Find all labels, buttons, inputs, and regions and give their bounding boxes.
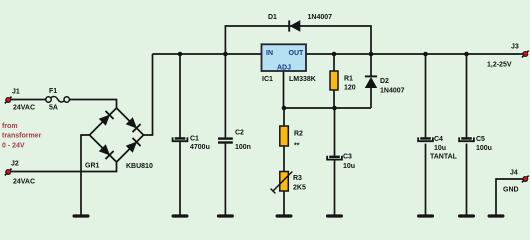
svg-text:KBU810: KBU810 (126, 163, 153, 170)
regulator IC1 LM338K (262, 44, 307, 71)
svg-text:transformer: transformer (2, 133, 42, 140)
svg-text:GR1: GR1 (85, 163, 100, 170)
resistor R2 (280, 126, 289, 146)
connector J1 terminal (5, 97, 12, 104)
svg-text:R1: R1 (344, 76, 353, 83)
svg-text:0 - 24V: 0 - 24V (2, 143, 25, 150)
junction C5/output rail (464, 52, 469, 57)
svg-text:4700u: 4700u (190, 144, 210, 151)
svg-text:TANTAL: TANTAL (430, 154, 458, 161)
wire J2 to bridge AC2 (bottom corner) (11, 162, 117, 172)
capacitor C5 electrolytic symbol (459, 137, 474, 141)
junction C1/input rail (178, 52, 183, 57)
wire C3 branch down (334, 108, 336, 156)
connector J3 terminal (522, 51, 529, 58)
capacitor C1 electrolytic symbol (173, 137, 188, 141)
junction R1/output rail (332, 52, 337, 57)
wire J4 to ground (496, 179, 523, 215)
capacitor C3 electrolytic symbol (327, 156, 342, 160)
wire C2 branch down (224, 54, 226, 137)
diode D1 (289, 20, 300, 31)
wire D2 branch (370, 54, 372, 76)
svg-text:24VAC: 24VAC (13, 179, 35, 186)
bridge diode left-top (98, 111, 113, 126)
bridge diode bottom-right (125, 138, 140, 153)
ground C1 (172, 214, 189, 217)
wire C1 to ground (179, 142, 181, 215)
svg-text:R3: R3 (293, 175, 302, 182)
svg-text:F1: F1 (49, 88, 57, 95)
svg-text:ADJ: ADJ (277, 65, 291, 72)
svg-text:C4: C4 (434, 136, 443, 143)
svg-text:D1: D1 (268, 14, 277, 21)
svg-text:2K5: 2K5 (293, 185, 306, 192)
ground C4 (417, 214, 434, 217)
wire R1 top lead (333, 54, 335, 71)
bridge diode top-right (125, 117, 140, 132)
wire R2 to R3 (283, 146, 285, 172)
wire input rail to IC1 IN (153, 53, 262, 55)
svg-text:1,2-25V: 1,2-25V (487, 62, 512, 69)
svg-text:LM338K: LM338K (289, 76, 316, 83)
wire bridge plus (right corner) up to input rail (144, 54, 153, 135)
wire IC1 ADJ pin down (283, 71, 285, 108)
wire bridge minus (left corner) to ground (81, 135, 90, 215)
wire ADJ node horizontal (284, 107, 371, 109)
ground bridge minus (73, 214, 90, 217)
svg-text:10u: 10u (343, 163, 355, 170)
junction D1-D2/output rail (369, 52, 374, 57)
svg-text:100n: 100n (235, 144, 251, 151)
wire R3 to ground (283, 191, 285, 215)
svg-text:from: from (2, 123, 18, 130)
svg-text:**: ** (294, 143, 300, 150)
connector J4 terminal (522, 176, 529, 183)
wire C3 to ground (334, 161, 336, 215)
diode D2 (365, 76, 377, 87)
svg-text:120: 120 (344, 85, 356, 92)
wire C5 branch down (466, 54, 468, 137)
svg-text:5A: 5A (49, 105, 58, 112)
fuse F1 (46, 97, 70, 103)
resistor R1 (330, 71, 338, 90)
ground C2 (217, 214, 234, 217)
wire fuse F1 to bridge AC1 (top corner) (69, 100, 116, 109)
wire C5 to ground (466, 144, 468, 215)
wire C1 branch down (179, 54, 181, 137)
bridge rectifier GR1 diamond (90, 108, 144, 162)
junction R1-C3/ADJ node (332, 106, 337, 111)
svg-text:OUT: OUT (289, 50, 305, 57)
svg-text:J2: J2 (11, 161, 19, 168)
svg-text:C2: C2 (235, 130, 244, 137)
ground C3 (326, 214, 343, 217)
svg-text:1N4007: 1N4007 (308, 14, 333, 21)
wire C2 to ground (224, 144, 226, 215)
capacitor C2 symbol (218, 137, 233, 143)
wire C4 to ground (425, 144, 427, 215)
ground C5 (458, 214, 475, 217)
wire D2 anode to ADJ node (370, 88, 372, 108)
junction ADJ node (282, 106, 287, 111)
trimmer R3 (271, 172, 293, 194)
svg-text:GND: GND (503, 187, 519, 194)
ground R3 (276, 214, 293, 217)
svg-text:C5: C5 (476, 136, 485, 143)
wire ADJ node to R2 (283, 108, 285, 126)
bridge diode left-bottom (98, 144, 113, 159)
svg-text:D2: D2 (380, 78, 389, 85)
connector J2 terminal (5, 169, 12, 176)
wire J1 to fuse F1 (11, 99, 46, 101)
svg-text:J1: J1 (12, 89, 20, 96)
wire IC1 OUT to output rail and J3 (306, 53, 523, 55)
svg-text:100u: 100u (476, 145, 492, 152)
svg-text:R2: R2 (294, 131, 303, 138)
svg-text:24VAC: 24VAC (13, 105, 35, 112)
ground J4 (488, 214, 505, 217)
svg-text:C1: C1 (190, 136, 199, 143)
svg-text:C3: C3 (343, 154, 352, 161)
svg-text:J3: J3 (511, 44, 519, 51)
svg-text:J4: J4 (510, 170, 518, 177)
svg-text:IC1: IC1 (262, 76, 273, 83)
svg-text:1N4007: 1N4007 (380, 88, 405, 95)
capacitor C4 electrolytic symbol (418, 137, 433, 141)
wire R1 bottom lead to ADJ node (333, 90, 335, 108)
wire D1 bypass branch (up, across, down) (225, 26, 371, 54)
junction C4/output rail (423, 52, 428, 57)
junction C2-D1/input rail (223, 52, 228, 57)
wire C4 branch down (425, 54, 427, 137)
svg-text:10u: 10u (434, 145, 446, 152)
svg-text:IN: IN (266, 50, 273, 57)
